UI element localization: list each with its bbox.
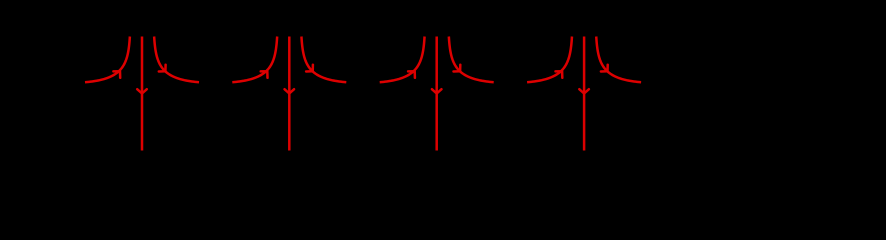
right solution curve descending from +infinity (unit 4): [596, 37, 641, 83]
arrowhead on left curve pointing up-right (unit 2): [261, 71, 268, 78]
arrowhead on left curve pointing up-right (unit 3): [408, 71, 415, 78]
arrowhead on left curve pointing up-right (unit 4): [556, 71, 563, 78]
left solution curve rising to +infinity (unit 4): [527, 37, 572, 83]
unit 3: blow-up solution family around asymptote t=C3: [380, 37, 494, 151]
right solution curve descending from +infinity (unit 1): [154, 37, 199, 83]
downward arrowhead on central line (unit 4): [579, 89, 589, 93]
left solution curve rising to +infinity (unit 1): [85, 37, 130, 83]
arrowhead on right curve pointing down-right (unit 3): [454, 65, 461, 72]
arrowhead on right curve pointing down-right (unit 2): [306, 65, 313, 72]
central vertical asymptote line (unit 3): [435, 37, 438, 151]
central vertical asymptote line (unit 2): [288, 37, 291, 151]
central vertical asymptote line (unit 4): [583, 37, 586, 151]
arrowhead on left curve pointing up-right (unit 1): [113, 71, 120, 78]
right solution curve descending from +infinity (unit 2): [301, 37, 346, 83]
downward arrowhead on central line (unit 2): [285, 89, 295, 93]
unit 1: blow-up solution family around asymptote t=C1: [85, 37, 199, 151]
right solution curve descending from +infinity (unit 3): [449, 37, 494, 83]
unit 4: blow-up solution family around asymptote t=C4: [527, 37, 641, 151]
central vertical asymptote line (unit 1): [141, 37, 144, 151]
unit 2: blow-up solution family around asymptote t=C2: [232, 37, 346, 151]
downward arrowhead on central line (unit 1): [137, 89, 147, 93]
left solution curve rising to +infinity (unit 3): [380, 37, 425, 83]
downward arrowhead on central line (unit 3): [432, 89, 442, 93]
arrowhead on right curve pointing down-right (unit 1): [159, 65, 166, 72]
left solution curve rising to +infinity (unit 2): [232, 37, 277, 83]
arrowhead on right curve pointing down-right (unit 4): [601, 65, 608, 72]
